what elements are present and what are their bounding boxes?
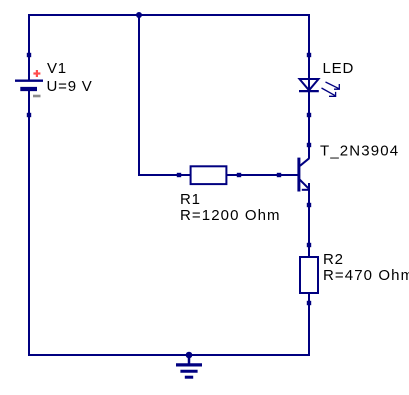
resistor R2	[300, 257, 318, 293]
resistor R1	[191, 166, 227, 184]
pin transistor collector	[307, 143, 311, 147]
svg-text:LED: LED	[323, 60, 355, 77]
pin battery V1 top	[27, 53, 31, 57]
pin R1 right	[237, 173, 241, 177]
node junction top rail / base branch	[136, 12, 142, 18]
battery V1	[15, 81, 43, 89]
svg-text:R=1200 Ohm: R=1200 Ohm	[180, 207, 281, 224]
wire left rail lower (battery - side)	[28, 88, 30, 356]
LED D1	[299, 79, 319, 91]
svg-text:U=9 V: U=9 V	[47, 78, 93, 95]
wire left rail upper (battery + side)	[28, 14, 30, 80]
node junction ground on bottom rail	[186, 352, 193, 359]
wire right rail upper (LED branch / collector)	[308, 14, 310, 159]
battery V1 minus mark	[33, 95, 41, 98]
pin R1 left	[177, 173, 181, 177]
svg-text:R2: R2	[323, 251, 344, 268]
transistor T_2N3904	[299, 158, 310, 192]
pin battery V1 bottom	[27, 113, 31, 117]
wire R2 to bottom rail	[308, 293, 310, 356]
svg-text:T_2N3904: T_2N3904	[320, 143, 399, 160]
svg-text:R=470 Ohm: R=470 Ohm	[323, 267, 409, 284]
pin LED bottom	[307, 113, 311, 117]
pin R2 bottom	[307, 301, 311, 305]
wire bottom rail	[28, 354, 310, 356]
wire branch from top rail down to base	[138, 15, 140, 175]
pin transistor base	[277, 173, 281, 177]
battery V1 plus mark	[33, 70, 40, 77]
wire base R1 row	[138, 174, 298, 176]
pin LED top	[307, 53, 311, 57]
svg-text:R1: R1	[180, 191, 201, 208]
ground	[176, 355, 202, 377]
pin transistor emitter	[307, 203, 311, 207]
LED light emission arrows	[322, 82, 340, 96]
wire emitter to R2	[308, 189, 310, 258]
pin R2 top	[307, 243, 311, 247]
svg-text:V1: V1	[47, 60, 67, 77]
wire top rail	[29, 14, 309, 16]
